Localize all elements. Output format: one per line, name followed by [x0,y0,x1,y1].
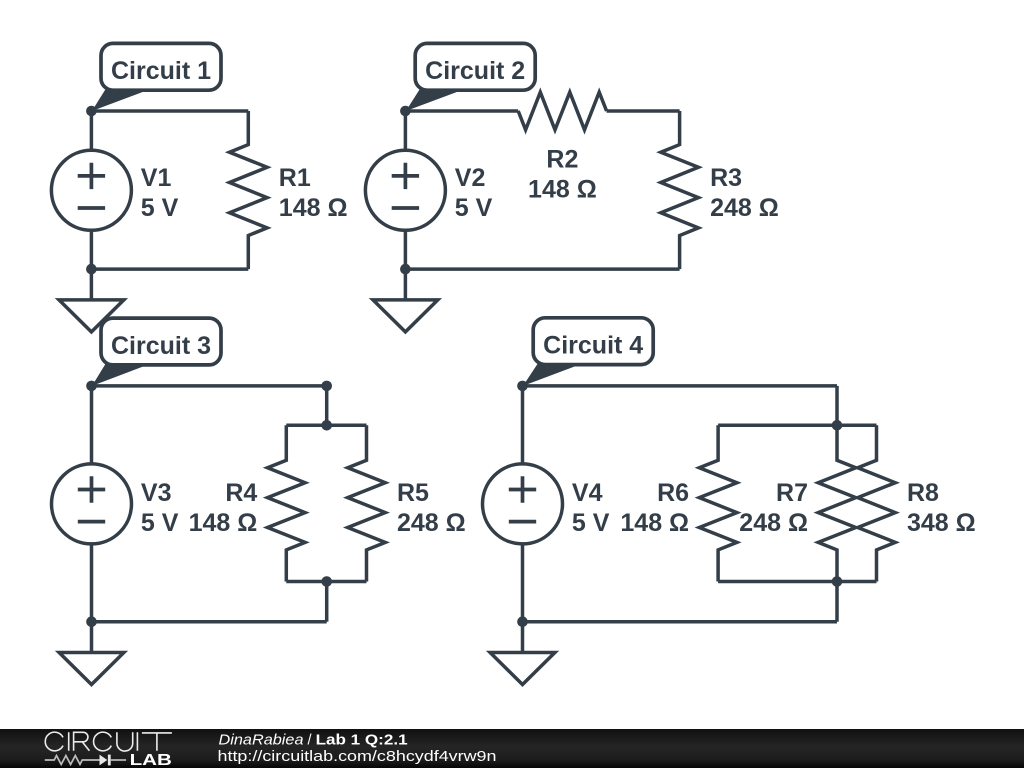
logo wire and resistor glyph [45,756,100,765]
annotation callout Circuit 4 [523,364,582,386]
ground circuit 3 [90,622,94,653]
node circuit 4 top bar junction [832,420,843,431]
svg-text:148 Ω: 148 Ω [620,509,689,537]
wire circuit 3 bottom [92,620,327,624]
wire circuit 2 top-right [607,109,680,113]
svg-text:R5: R5 [397,479,429,507]
svg-text:R4: R4 [225,479,257,507]
svg-text:R7: R7 [776,479,808,507]
svg-text:http://circuitlab.com/c8hcydf4: http://circuitlab.com/c8hcydf4vrw9n [218,749,497,765]
node circuit 4 top-left junction [517,381,528,392]
node circuit 3 top-right corner [321,381,332,392]
annotation callout Circuit 3 [92,364,150,386]
svg-text:R1: R1 [279,164,311,192]
wire circuit 1 bottom [91,267,248,271]
wire circuit 3 bottom bar [286,580,366,584]
annotation callout Circuit 2 [406,89,464,111]
wire circuit 2 top-left [405,109,518,113]
svg-text:DinaRabiea / Lab 1 Q:2.1: DinaRabiea / Lab 1 Q:2.1 [219,733,408,749]
resistor R6 [699,425,737,581]
wire circuit 4 feed rise [835,582,839,622]
wire V3 top lead [90,386,94,464]
wire V4 top lead [521,386,525,464]
svg-text:248 Ω: 248 Ω [739,509,808,537]
logo CIRCUIT wordmark [45,732,172,751]
svg-text:R2: R2 [546,146,578,174]
svg-text:R3: R3 [710,164,742,192]
resistor R3 [661,111,699,269]
svg-text:Circuit 4: Circuit 4 [543,332,643,360]
svg-text:V3: V3 [141,479,172,507]
resistor R7 [818,425,856,581]
svg-text:V1: V1 [141,164,172,192]
node circuit 2 top junction [400,106,411,117]
ground circuit 1 [90,269,94,300]
node circuit 4 bottom-left junction [517,616,528,627]
resistor R1 [230,111,268,269]
node circuit 2 bottom junction [400,264,411,275]
wire circuit 4 bottom [523,620,838,624]
wire circuit 4 feed drop [835,386,839,425]
node circuit 3 top-left junction [86,381,97,392]
svg-text:148 Ω: 148 Ω [189,509,258,537]
svg-text:Circuit 1: Circuit 1 [111,57,211,85]
resistor R2 [518,92,606,130]
svg-text:348 Ω: 348 Ω [907,509,976,537]
ground circuit 2 [404,269,408,300]
svg-text:LAB: LAB [130,752,172,768]
voltage source V2 [365,150,445,230]
wire circuit 3 junction drop [325,386,329,425]
voltage source V3 [52,464,132,544]
voltage source V4 [483,464,563,544]
svg-text:V4: V4 [572,479,603,507]
node circuit 1 top junction [86,106,97,117]
annotation callout Circuit 1 [92,89,150,111]
wire circuit 1 top [91,109,248,113]
svg-text:Circuit 2: Circuit 2 [425,57,525,85]
svg-text:148 Ω: 148 Ω [279,194,348,222]
wire V4 bottom lead [521,544,525,622]
resistor R5 [348,425,386,581]
voltage source V1 [51,150,131,230]
wire V1 top lead [90,111,94,150]
logo diode glyph [100,755,108,766]
wire circuit 4 top bar [718,424,876,428]
wire circuit 3 top bar [286,424,366,428]
node circuit 3 bottom-left junction [86,616,97,627]
resistor R8 [858,425,896,581]
footer bar [0,729,1024,768]
wire circuit 3 top [92,384,327,388]
svg-text:148 Ω: 148 Ω [528,176,597,204]
svg-text:Circuit 3: Circuit 3 [111,332,211,360]
svg-text:5 V: 5 V [455,194,493,222]
resistor R4 [268,425,306,581]
wire circuit 4 top [523,384,838,388]
wire V3 bottom lead [90,544,94,622]
svg-text:248 Ω: 248 Ω [397,509,466,537]
wire circuit 2 bottom [405,267,679,271]
svg-text:V2: V2 [455,164,486,192]
wire circuit 4 bottom bar [718,580,876,584]
svg-text:5 V: 5 V [572,509,610,537]
node circuit 4 bottom bar junction [832,576,843,587]
wire V2 top lead [404,111,408,150]
wire V2 bottom lead [404,230,408,269]
ground circuit 4 [521,622,525,653]
svg-text:248 Ω: 248 Ω [710,194,779,222]
svg-text:5 V: 5 V [141,194,179,222]
node circuit 1 bottom junction [86,264,97,275]
svg-text:5 V: 5 V [141,509,179,537]
svg-text:R8: R8 [907,479,939,507]
node circuit 3 top bar junction [321,420,332,431]
node circuit 3 bottom bar junction [321,576,332,587]
svg-text:R6: R6 [657,479,689,507]
wire V1 bottom lead [90,230,94,269]
wire circuit 3 junction rise [325,582,329,622]
